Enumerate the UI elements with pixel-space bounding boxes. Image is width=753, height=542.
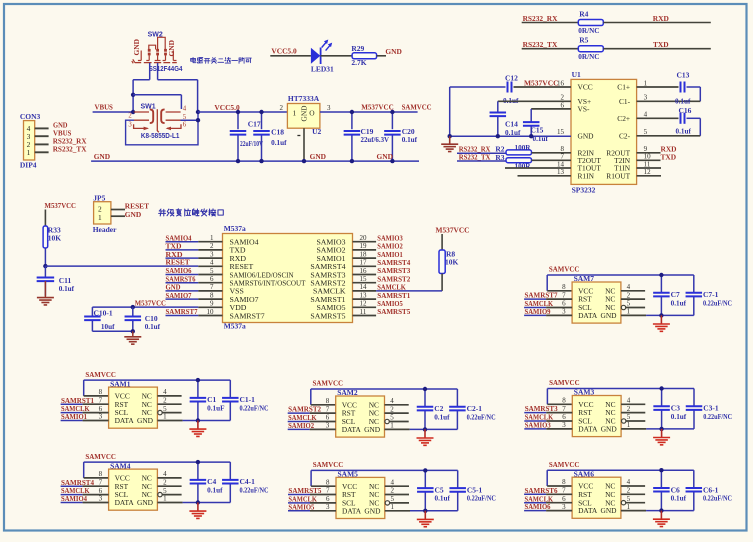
svg-text:6: 6 [210, 275, 214, 283]
svg-text:RS232_RX: RS232_RX [523, 14, 558, 23]
wire GND pin1 (SAM6) [621, 510, 646, 512]
svg-text:5: 5 [627, 413, 631, 421]
inverter bubble pin5 (SAM3) [622, 419, 626, 423]
M537a pin 18 stub [353, 257, 377, 259]
resistor R33 10K [43, 226, 61, 248]
svg-text:1: 1 [390, 422, 394, 430]
svg-text:C2: C2 [434, 404, 443, 413]
svg-text:SAMVCC: SAMVCC [313, 460, 344, 469]
svg-text:C5: C5 [435, 486, 444, 495]
ground (SP3232) [449, 136, 451, 143]
wire RST (SAM4) [61, 485, 83, 487]
capacitor C2-1 (SAM2) [449, 389, 495, 429]
wire SCL (SAM3) [524, 420, 546, 422]
svg-text:GND: GND [601, 425, 618, 434]
svg-text:2: 2 [280, 104, 284, 112]
junction C10 bottom [131, 329, 135, 333]
svg-text:TXD: TXD [661, 152, 677, 161]
M537a pin 2 stub [166, 249, 199, 251]
svg-text:0.1uf: 0.1uf [671, 299, 687, 307]
svg-text:3: 3 [99, 413, 103, 421]
svg-text:0.22uF/NC: 0.22uF/NC [703, 299, 732, 307]
svg-text:SAMVCC: SAMVCC [549, 265, 580, 274]
svg-text:6: 6 [183, 122, 187, 129]
svg-text:14: 14 [360, 283, 368, 291]
svg-text:SP3232: SP3232 [572, 185, 596, 194]
svg-text:0.22uF/NC: 0.22uF/NC [467, 495, 496, 503]
svg-text:3: 3 [99, 495, 103, 503]
wire DATA (SAM2) [288, 428, 310, 430]
svg-text:GND: GND [94, 152, 110, 161]
junction top (SAM4) [196, 460, 200, 464]
junction top (SAM3) [659, 386, 663, 390]
svg-text:VBUS: VBUS [95, 103, 113, 112]
junction top (SAM2) [423, 387, 427, 391]
svg-text:VCC5.0: VCC5.0 [271, 46, 297, 55]
svg-text:8: 8 [326, 397, 330, 405]
wire RESET node to chip pin4 [45, 265, 198, 267]
svg-text:0.1uf: 0.1uf [671, 495, 687, 503]
svg-text:GND: GND [364, 506, 381, 515]
capacitor C19 22uf/6.3V [344, 112, 390, 161]
svg-text:0.22uF/NC: 0.22uF/NC [467, 413, 496, 421]
wire SCL (SAM2) [288, 421, 310, 423]
inverter bubble pin5 (SAM2) [385, 419, 389, 423]
svg-text:R29: R29 [351, 44, 364, 53]
svg-text:C1-1: C1-1 [240, 395, 256, 404]
wire DATA (SAM4) [61, 502, 83, 504]
svg-text:C6-1: C6-1 [703, 485, 719, 494]
svg-text:18: 18 [360, 250, 368, 258]
junction SW1 right rail [196, 110, 200, 114]
M537a pin 3 stub [166, 257, 199, 259]
svg-text:3: 3 [562, 421, 566, 429]
svg-text:3: 3 [562, 503, 566, 511]
wire GND pin1 (SAM7) [621, 314, 646, 316]
capacitor C10-1 10uf [84, 307, 115, 331]
svg-text:8: 8 [99, 470, 103, 478]
capacitor C10 0.1uf [125, 307, 161, 331]
wire RST (SAM6) [524, 493, 546, 495]
M537a pin 10 stub [166, 315, 199, 317]
svg-text:1: 1 [27, 148, 31, 157]
svg-text:3: 3 [562, 308, 566, 316]
svg-text:6: 6 [562, 413, 566, 421]
svg-text:8: 8 [562, 283, 566, 291]
chip SAM3 [572, 388, 621, 437]
svg-text:RS232_TX: RS232_TX [53, 145, 87, 154]
svg-text:15: 15 [557, 128, 565, 136]
junction top (SAM7) [659, 273, 663, 277]
svg-text:4: 4 [627, 478, 631, 486]
svg-text:0.1uf: 0.1uf [207, 486, 223, 494]
junction bottom (SAM2) [423, 427, 427, 431]
svg-text:2.7K: 2.7K [351, 58, 366, 67]
svg-text:3: 3 [128, 122, 132, 129]
wire DATA (SAM5) [288, 510, 310, 512]
svg-text:3: 3 [326, 422, 330, 430]
pin numbers right (SAM4) [163, 470, 167, 503]
svg-text:LED31: LED31 [311, 65, 334, 74]
regulator U2 HT7333A [287, 94, 321, 136]
inverter bubble pin5 (SAM6) [621, 501, 625, 505]
M537a pin 13 stub [353, 298, 377, 300]
svg-text:7: 7 [326, 405, 330, 413]
svg-text:3: 3 [210, 250, 214, 258]
svg-text:0.1uf: 0.1uf [59, 285, 75, 293]
svg-text:C2-: C2- [619, 131, 631, 140]
svg-text:7: 7 [99, 396, 103, 404]
svg-text:SAMRST7: SAMRST7 [230, 311, 265, 320]
svg-text:0.1uf: 0.1uf [145, 323, 161, 331]
wire pin9 to RXD [637, 152, 661, 154]
svg-text:SAMRST5: SAMRST5 [310, 311, 345, 320]
U1 right pin numbers [644, 79, 652, 176]
svg-text:DATA: DATA [115, 498, 135, 507]
junction bottom (SAM6) [659, 508, 663, 512]
svg-text:0.1uf: 0.1uf [402, 136, 418, 144]
svg-text:GND: GND [385, 47, 401, 56]
wire NC stubs (SAM1) [157, 395, 181, 397]
M537a pin 20 stub [353, 241, 377, 243]
svg-text:2: 2 [163, 478, 167, 486]
svg-text:20: 20 [360, 234, 368, 242]
svg-text:6: 6 [562, 495, 566, 503]
chip SAM5 [336, 470, 385, 519]
chip SAM4 [109, 461, 158, 510]
capacitor C2 (SAM2) [417, 389, 450, 429]
svg-text:4: 4 [390, 397, 394, 405]
svg-text:4: 4 [627, 283, 631, 291]
svg-text:C14: C14 [505, 120, 518, 129]
pin numbers left (SAM5) [326, 478, 330, 511]
svg-text:GND: GND [364, 425, 381, 434]
wire C10 bottoms join [92, 330, 132, 332]
switch SW2 SS12F44G4 [132, 31, 183, 73]
svg-text:7: 7 [562, 291, 566, 299]
svg-text:4: 4 [391, 478, 395, 486]
svg-text:C4: C4 [207, 477, 216, 486]
wire VBUS to SW1 [93, 111, 134, 113]
CON3 pin stubs [35, 128, 49, 152]
svg-text:M537VCC: M537VCC [361, 103, 394, 112]
wire GND pin1 (SAM5) [385, 510, 410, 512]
svg-text:4: 4 [183, 105, 187, 112]
svg-text:0.1uF: 0.1uF [207, 404, 225, 412]
wire R29 to GND [377, 55, 386, 57]
wire SCL (SAM1) [61, 412, 83, 414]
svg-text:C11: C11 [59, 276, 72, 285]
M537a pin 17 stub [353, 265, 377, 267]
wire RS232_RX to R4 [522, 22, 579, 24]
resistor R3 100R [495, 153, 531, 171]
svg-text:0.1uf: 0.1uf [434, 413, 450, 421]
svg-text:DATA: DATA [115, 416, 135, 425]
inverter bubble pin5 (SAM4) [158, 492, 162, 496]
wire SCL (SAM4) [61, 494, 83, 496]
svg-text:9: 9 [210, 300, 214, 308]
svg-text:SS12F44G4: SS12F44G4 [149, 66, 183, 73]
svg-text:1: 1 [163, 413, 167, 421]
svg-text:22uf/6.3V: 22uf/6.3V [361, 136, 390, 144]
svg-text:6: 6 [562, 300, 566, 308]
svg-text:10: 10 [207, 308, 215, 316]
svg-text:R1OUT: R1OUT [606, 171, 630, 180]
svg-text:RS232_TX: RS232_TX [523, 40, 558, 49]
svg-text:GND: GND [300, 105, 309, 122]
svg-text:11: 11 [360, 308, 367, 316]
wire R33 to RESET node [44, 248, 46, 266]
inverter bubble pin5 (SAM5) [385, 501, 389, 505]
wire pin13 stub [518, 175, 572, 177]
svg-text:SAMIO7: SAMIO7 [166, 291, 192, 300]
wire SAMVCC rail (SAM6) [547, 469, 694, 471]
svg-text:CON3: CON3 [20, 112, 41, 121]
svg-text:U2: U2 [312, 127, 321, 136]
svg-text:GND: GND [601, 311, 618, 320]
wire pin14 stub [505, 167, 571, 169]
polarity dash [297, 135, 300, 137]
M537a pin 12 stub [353, 306, 377, 308]
wire SCL (SAM6) [524, 502, 546, 504]
wire SAMVCC rail (SAM2) [311, 388, 458, 390]
svg-text:VCC: VCC [578, 83, 593, 92]
wire VCC pin8 (SAM6) [547, 485, 572, 487]
svg-text:3: 3 [327, 104, 331, 112]
wire M537VCC vertical to gnd [449, 87, 451, 136]
M537a pin 7 stub [166, 290, 199, 292]
svg-text:5: 5 [210, 267, 214, 275]
svg-text:22uF/10V: 22uF/10V [240, 140, 264, 148]
wire NC stubs (SAM7) [621, 290, 645, 292]
pin numbers right (SAM6) [627, 478, 631, 511]
svg-text:C12: C12 [505, 74, 518, 83]
svg-text:17: 17 [360, 259, 368, 267]
note: power switch choose-one text [191, 57, 196, 62]
wire NC stubs (SAM5) [385, 485, 409, 487]
svg-text:4: 4 [210, 259, 214, 267]
svg-text:7: 7 [562, 487, 566, 495]
capacitor C5-1 (SAM5) [449, 470, 495, 510]
ground (SAM2) [424, 429, 426, 437]
svg-text:0.22uF/NC: 0.22uF/NC [240, 486, 269, 494]
svg-text:C10-1: C10-1 [94, 308, 113, 317]
wire GND pin1 (SAM4) [157, 502, 182, 504]
svg-text:GND: GND [578, 131, 595, 140]
svg-text:1: 1 [627, 308, 631, 316]
svg-text:8: 8 [99, 388, 103, 396]
svg-text:C18: C18 [271, 128, 284, 137]
wire DATA (SAM7) [524, 314, 546, 316]
pin numbers right (SAM1) [163, 388, 167, 421]
wire SAMVCC rail (SAM7) [547, 274, 694, 276]
svg-text:C15: C15 [531, 126, 544, 135]
svg-text:C3-1: C3-1 [703, 404, 719, 413]
capacitor C6 (SAM6) [653, 470, 686, 510]
M537a pin 1 stub [166, 241, 199, 243]
svg-text:GND: GND [137, 498, 154, 507]
ground (C10) [132, 331, 134, 336]
wire VCC pin8 (SAM7) [547, 290, 572, 292]
wire SCL (SAM5) [288, 502, 310, 504]
junction RESET node [43, 264, 47, 268]
wire SW1 bottom loop box [126, 112, 198, 145]
chip SAM7 [572, 274, 621, 323]
wire pin12 stub [637, 175, 661, 177]
wire RST (SAM1) [61, 403, 83, 405]
svg-text:7: 7 [326, 487, 330, 495]
wire RST (SAM7) [524, 298, 546, 300]
svg-text:1: 1 [627, 503, 631, 511]
wire U1 VS+ pin2 / capacitor C14 [498, 100, 571, 102]
svg-text:SW1: SW1 [141, 103, 156, 110]
M537a pin 11 stub [353, 315, 377, 317]
pin numbers left (SAM7) [562, 283, 566, 316]
junction bottom (SAM7) [659, 313, 663, 317]
svg-text:C20: C20 [402, 127, 415, 136]
svg-text:C1+: C1+ [617, 83, 630, 92]
ground (C11) [44, 281, 46, 297]
svg-text:R4: R4 [579, 9, 588, 18]
wire RS232_TX to R3 [457, 160, 506, 162]
wire RS232_RX to R2 [457, 152, 506, 154]
svg-text:8: 8 [562, 397, 566, 405]
svg-text:2: 2 [627, 405, 631, 413]
svg-text:5: 5 [627, 495, 631, 503]
svg-text:5: 5 [391, 495, 395, 503]
svg-text:GND: GND [125, 210, 141, 219]
M537a pin 15 stub [353, 282, 377, 284]
wire R5 to TXD [603, 48, 711, 50]
capacitor C3 (SAM3) [653, 389, 686, 429]
svg-text:0.22uF/NC: 0.22uF/NC [703, 413, 732, 421]
svg-text:4: 4 [627, 397, 631, 405]
ground (SAM1) [197, 421, 199, 429]
capacitor C16 loop pins 4-5 [637, 117, 679, 119]
svg-text:DATA: DATA [578, 311, 598, 320]
wire NC stubs (SAM2) [385, 404, 409, 406]
wire U2 GND pin [303, 128, 305, 161]
svg-text:2: 2 [627, 487, 631, 495]
svg-text:5: 5 [390, 414, 394, 422]
junction VBUS/SW1 [131, 110, 135, 114]
connector JP5 Header [93, 194, 117, 234]
wire RST (SAM5) [288, 494, 310, 496]
svg-text:8: 8 [326, 478, 330, 486]
svg-text:DATA: DATA [578, 425, 598, 434]
svg-text:R1IN: R1IN [578, 171, 595, 180]
svg-text:0.1uf: 0.1uf [435, 495, 451, 503]
capacitor C11 0.1uf [37, 266, 75, 296]
svg-text:C2-1: C2-1 [467, 404, 483, 413]
svg-text:DIP4: DIP4 [20, 161, 37, 170]
capacitor C7-1 (SAM7) [686, 275, 732, 315]
M537a pin 14 stub [353, 290, 377, 292]
wire RST (SAM3) [524, 412, 546, 414]
svg-text:GND: GND [167, 40, 176, 56]
chip SAM6 [572, 469, 621, 518]
svg-text:C10: C10 [145, 314, 158, 323]
capacitor C18 0.1uf [253, 112, 287, 161]
svg-text:DATA: DATA [578, 506, 598, 515]
svg-text:15: 15 [360, 275, 368, 283]
svg-text:M537VCC: M537VCC [524, 78, 559, 87]
svg-text:R5: R5 [579, 36, 588, 45]
wire VCC pin8 (SAM3) [547, 403, 572, 405]
svg-text:C7: C7 [671, 290, 680, 299]
junction bottom (SAM4) [196, 500, 200, 504]
capacitor C3-1 (SAM3) [686, 389, 732, 429]
svg-text:TXD: TXD [653, 40, 669, 49]
M537a pin 9 stub [198, 306, 222, 308]
svg-text:SAMVCC: SAMVCC [549, 460, 580, 469]
capacitor C5 (SAM5) [417, 470, 450, 510]
LED LED31 [311, 40, 334, 74]
svg-text:SAMRST7: SAMRST7 [166, 307, 198, 316]
resistor R2 100R [495, 144, 531, 155]
ground (SAM4) [197, 503, 199, 511]
wire VDD net [92, 306, 198, 308]
wire NC stubs (SAM4) [157, 477, 181, 479]
wire RS232_TX to R5 [522, 48, 579, 50]
svg-text:R3: R3 [495, 153, 504, 162]
svg-text:2: 2 [128, 112, 132, 119]
junction top (SAM5) [423, 468, 427, 472]
wire DATA (SAM6) [524, 510, 546, 512]
connector CON3 (DIP4) [20, 112, 41, 170]
wire SW2 right pin down [157, 63, 159, 80]
wire M537VCC to R8 [441, 234, 443, 250]
svg-text:C2+: C2+ [617, 114, 630, 123]
svg-text:C16: C16 [679, 106, 692, 115]
svg-text:1: 1 [210, 234, 214, 242]
svg-text:GND: GND [310, 152, 326, 161]
svg-text:0R/NC: 0R/NC [578, 53, 599, 61]
junction top (SAM6) [659, 468, 663, 472]
svg-text:SAMVCC: SAMVCC [85, 452, 116, 461]
resistor R29 2.7K [351, 44, 376, 67]
svg-text:7: 7 [99, 478, 103, 486]
svg-text:0.1uf: 0.1uf [675, 97, 691, 105]
svg-text:1: 1 [391, 503, 395, 511]
wire R3 to pin7 [532, 159, 572, 161]
svg-text:C1-: C1- [619, 97, 631, 106]
svg-text:1: 1 [293, 108, 297, 117]
svg-text:HT7333A: HT7333A [288, 94, 320, 103]
M537a pin 4 stub [198, 265, 222, 267]
note: upgrade reset trigger interface [159, 209, 166, 216]
svg-text:6: 6 [99, 405, 103, 413]
capacitor C4-1 (SAM4) [222, 462, 268, 502]
svg-text:1: 1 [163, 495, 167, 503]
wire VCC5.0 to LED [270, 55, 311, 57]
wire GND rail [91, 160, 419, 162]
ground (SAM6) [660, 511, 662, 519]
capacitor C1 (SAM1) [190, 380, 225, 420]
M537a pin 5 stub [166, 274, 199, 276]
svg-text:RESET: RESET [166, 258, 190, 267]
capacitor C7 (SAM7) [653, 275, 686, 315]
wire U1 VS- pin6 / capacitor C15 [531, 108, 571, 110]
wire R2 to pin8 [532, 152, 572, 154]
svg-text:10K: 10K [445, 258, 459, 267]
svg-text:VS-: VS- [578, 105, 590, 114]
pin numbers left (SAM4) [99, 470, 103, 503]
svg-text:C6: C6 [671, 485, 680, 494]
M537a pin 16 stub [353, 274, 377, 276]
capacitor C17 22uF/10V [230, 112, 264, 161]
svg-text:0.22uF/NC: 0.22uF/NC [703, 495, 732, 503]
